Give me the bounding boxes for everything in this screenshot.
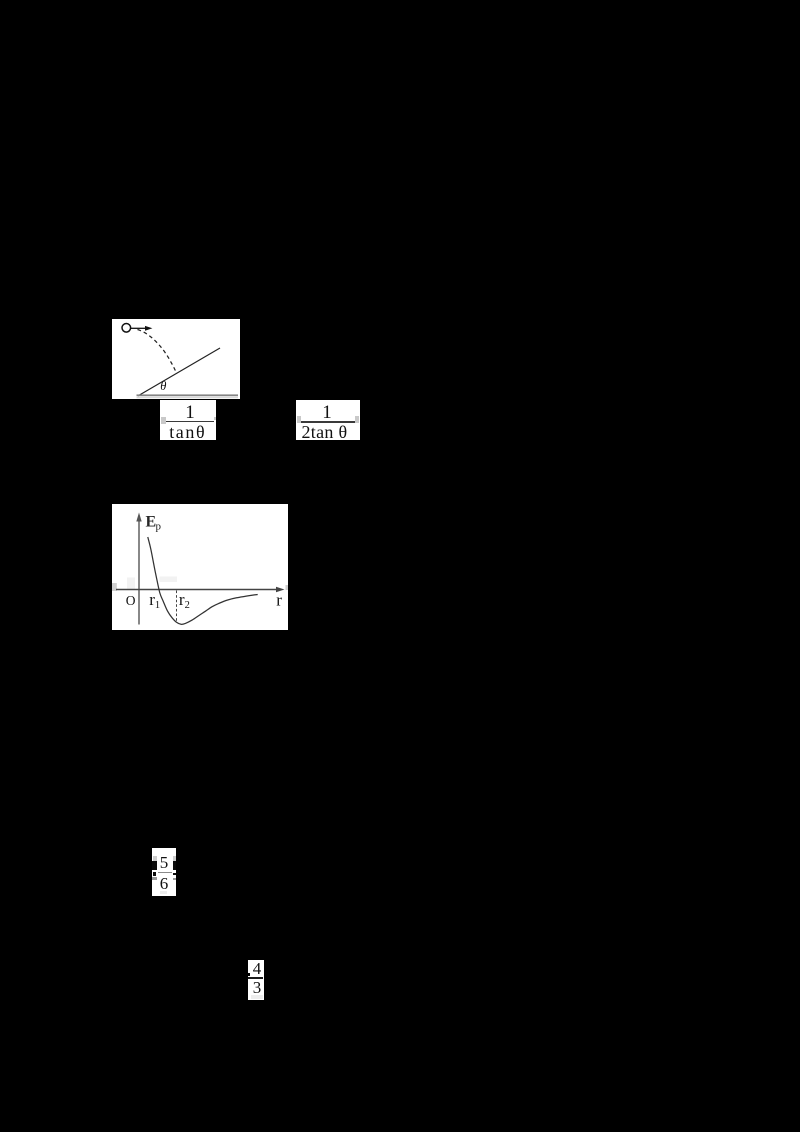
numerator 1 <box>160 404 220 421</box>
fraction bar <box>301 421 356 423</box>
equation: 4/3 (small white panel) <box>248 960 264 1000</box>
velocity arrow <box>131 326 153 331</box>
numerator 4 <box>249 961 265 976</box>
gray handle at left end of x axis <box>112 583 117 591</box>
equation: 1/tan(theta) (white panel) <box>160 400 216 440</box>
gray shade top-left <box>153 856 158 862</box>
equation: 5/6 (small white panel with selection handles) <box>152 848 176 896</box>
potential energy curve <box>148 537 258 624</box>
svg-text:1: 1 <box>155 600 160 611</box>
gray handle left <box>161 417 166 425</box>
fraction bar <box>248 977 263 979</box>
svg-text:O: O <box>126 593 136 608</box>
gray handle right <box>214 417 216 420</box>
denominator 6 <box>152 877 176 891</box>
black tick left lower <box>153 872 157 876</box>
fraction bar <box>166 421 214 423</box>
svg-text:2: 2 <box>185 600 190 611</box>
dashed line at r2 <box>176 591 178 623</box>
light gray bottom <box>251 995 263 999</box>
gray shade top-right <box>173 856 177 862</box>
x axis <box>116 587 285 592</box>
figure: ball thrown from incline (white panel) <box>112 319 240 399</box>
faint gray smudge above axis <box>160 577 178 583</box>
gray handle at right end of x axis <box>286 585 289 590</box>
black tick right lower <box>173 873 176 875</box>
numerator 1 <box>296 404 358 421</box>
gray mark bottom-left <box>152 877 157 880</box>
denominator tan theta <box>169 425 217 440</box>
black notch left of bar <box>248 973 250 976</box>
black handle left <box>152 861 157 870</box>
fraction bar <box>158 872 172 874</box>
light smudge bottom <box>160 891 168 894</box>
gray handle right <box>355 416 360 423</box>
denominator 2tan theta <box>302 425 360 440</box>
svg-text:r: r <box>276 591 282 610</box>
black handle right <box>173 861 177 870</box>
ground (gray double line) <box>137 394 239 396</box>
incline line <box>138 348 220 396</box>
y axis <box>136 513 141 625</box>
graph: Ep versus r potential curve (white panel) <box>112 504 288 630</box>
gray handle left <box>297 416 301 423</box>
numerator 5 <box>152 855 176 870</box>
faint gray smudge left of origin <box>127 578 135 590</box>
dashed trajectory <box>138 330 177 374</box>
ball O <box>122 324 131 333</box>
svg-text:θ: θ <box>160 379 166 393</box>
denominator 3 <box>249 981 265 995</box>
equation: 1/(2 tan(theta)) (white panel) <box>296 400 360 440</box>
gray mark bottom-right <box>173 878 177 880</box>
svg-text:p: p <box>156 521 162 533</box>
